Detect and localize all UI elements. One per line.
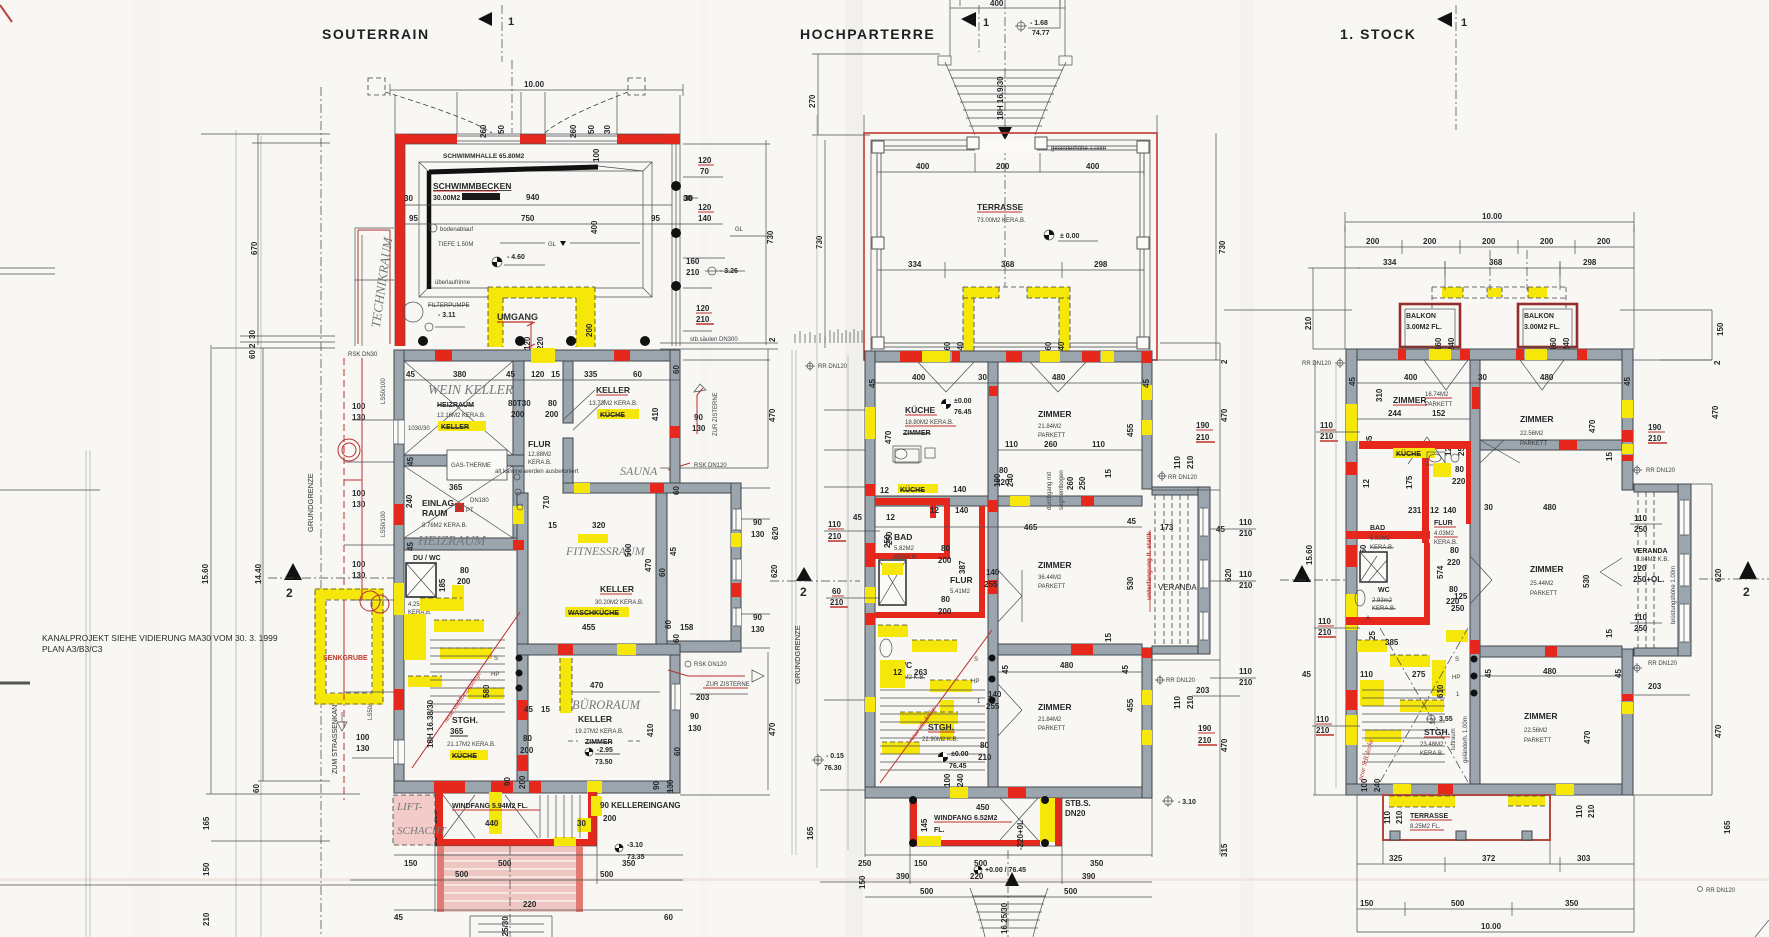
svg-text:220: 220 (523, 900, 537, 909)
svg-text:14.40: 14.40 (254, 563, 263, 584)
kueche old struck (898, 484, 938, 493)
dims 334/368/298 (877, 262, 1144, 278)
svg-text:210: 210 (1648, 434, 1662, 443)
svg-text:10.00: 10.00 (1482, 212, 1503, 221)
svg-text:210: 210 (1395, 810, 1404, 824)
svg-text:STGH.: STGH. (928, 722, 954, 732)
svg-text:PARKETT: PARKETT (1038, 433, 1066, 439)
svg-text:100: 100 (352, 560, 366, 569)
pool outer (419, 162, 652, 297)
filterpumpe (403, 302, 423, 322)
svg-text:RSK DN30: RSK DN30 (348, 352, 378, 358)
svg-text:60: 60 (633, 370, 642, 379)
svg-text:15: 15 (1605, 629, 1614, 638)
svg-text:45: 45 (406, 370, 415, 379)
dim 10.00 top (390, 84, 683, 96)
yellow patches walls (531, 348, 555, 363)
svg-text:WC: WC (1378, 587, 1390, 594)
svg-text:18H 16.38/30: 18H 16.38/30 (426, 699, 435, 748)
svg-text:KELLER: KELLER (578, 714, 612, 724)
level mark -1.68/74.77 (1017, 22, 1025, 30)
svg-text:geländerhöhe 1.00m: geländerhöhe 1.00m (1051, 146, 1106, 152)
svg-text:HOCHPARTERRE: HOCHPARTERRE (800, 26, 935, 42)
svg-text:240: 240 (1006, 473, 1015, 487)
einlag raum X (404, 466, 513, 538)
svg-text:12: 12 (1362, 479, 1371, 488)
bottom dims plan2 (820, 855, 1152, 897)
svg-text:2: 2 (800, 585, 807, 599)
svg-text:BALKON: BALKON (1524, 313, 1554, 320)
svg-text:RAUM: RAUM (422, 508, 448, 518)
svg-text:45: 45 (669, 547, 678, 556)
svg-text:710: 710 (542, 495, 551, 509)
svg-text:19.27M2 KERA.B.: 19.27M2 KERA.B. (575, 729, 624, 735)
right dim stack upper (683, 144, 770, 224)
bottom hall dots (418, 336, 428, 346)
svg-text:12: 12 (880, 486, 889, 495)
svg-text:ZUR ZISTERNE: ZUR ZISTERNE (706, 682, 750, 688)
svg-text:220: 220 (536, 336, 545, 350)
svg-text:30: 30 (577, 819, 586, 828)
weinkeller X diagonals (404, 361, 513, 455)
svg-text:8.25M2 FL.: 8.25M2 FL. (1410, 824, 1441, 830)
svg-text:372: 372 (1482, 854, 1496, 863)
svg-text:TIEFE 1.50M: TIEFE 1.50M (438, 242, 473, 248)
inner wall V1 weinkeller (513, 361, 524, 460)
svg-text:120: 120 (698, 203, 712, 212)
svg-text:8.84M2 K.B.: 8.84M2 K.B. (1636, 557, 1669, 563)
svg-text:80: 80 (941, 595, 950, 604)
door X veranda p3 (1600, 558, 1622, 586)
svg-text:GL: GL (548, 242, 557, 248)
level mark kueche (941, 399, 951, 409)
svg-text:368: 368 (1001, 260, 1015, 269)
svg-text:ZIMMER: ZIMMER (903, 430, 931, 437)
svg-text:76.45: 76.45 (949, 763, 967, 770)
svg-text:luftraum: luftraum (1451, 728, 1457, 750)
svg-text:- 3.10: - 3.10 (1178, 799, 1196, 806)
svg-text:30.00M2: 30.00M2 (433, 195, 460, 202)
lift schacht (393, 795, 435, 845)
door X zimmer top (1480, 440, 1520, 463)
svg-text:140: 140 (698, 214, 712, 223)
extension divider wall (656, 493, 667, 644)
svg-text:KÜCHE: KÜCHE (900, 485, 925, 494)
svg-text:500: 500 (1064, 887, 1078, 896)
svg-text:FLUR: FLUR (950, 575, 973, 585)
svg-text:100: 100 (352, 402, 366, 411)
svg-text:10.00: 10.00 (1481, 922, 1502, 931)
bottom wall patches (950, 787, 968, 798)
svg-text:PARKETT: PARKETT (1520, 441, 1548, 447)
svg-text:365: 365 (449, 483, 463, 492)
svg-text:210: 210 (1196, 433, 1210, 442)
svg-text:36.44M2: 36.44M2 (1038, 575, 1062, 581)
svg-text:210: 210 (686, 268, 700, 277)
dim 15.60 (206, 345, 360, 794)
plan3 extension lines (1345, 225, 1634, 349)
svg-text:RR DN120: RR DN120 (1302, 361, 1332, 367)
svg-text:13.73M2 KERA.B.: 13.73M2 KERA.B. (589, 401, 638, 407)
svg-text:250: 250 (1634, 525, 1648, 534)
svg-text:210: 210 (696, 315, 710, 324)
left margin long lines (236, 130, 261, 937)
extension top wall (563, 483, 741, 493)
svg-text:HEIZRAUM: HEIZRAUM (417, 533, 486, 548)
svg-text:200: 200 (603, 814, 617, 823)
svg-text:45: 45 (853, 513, 862, 522)
svg-text:PT: PT (466, 508, 474, 514)
stairs area DU/WC (406, 563, 436, 597)
svg-text:15: 15 (1104, 469, 1113, 478)
svg-text:500: 500 (1451, 899, 1465, 908)
svg-text:350: 350 (1090, 859, 1104, 868)
svg-text:PARKETT: PARKETT (1038, 584, 1066, 590)
svg-text:2: 2 (286, 586, 293, 600)
svg-text:2: 2 (768, 337, 777, 342)
H wall right top p3 (1480, 440, 1622, 450)
-4.60 (492, 257, 502, 267)
svg-text:620: 620 (771, 526, 780, 540)
svg-text:580: 580 (482, 684, 491, 698)
svg-text:100: 100 (352, 489, 366, 498)
svg-text:STB.S.: STB.S. (1065, 799, 1091, 808)
right wall patches (1142, 351, 1152, 363)
svg-text:KANALPROJEKT SIEHE VIDIERUNG: KANALPROJEKT SIEHE VIDIERUNG MA30 VOM 30… (42, 633, 278, 643)
svg-text:334: 334 (1383, 258, 1397, 267)
stair yellow patches (420, 598, 462, 611)
svg-text:ZIMMER: ZIMMER (1393, 395, 1427, 405)
svg-text:100: 100 (592, 148, 601, 162)
svg-text:200: 200 (938, 607, 952, 616)
svg-text:130: 130 (352, 500, 366, 509)
svg-text:PARKETT: PARKETT (1524, 738, 1552, 744)
svg-text:110: 110 (1383, 811, 1392, 824)
svg-text:750: 750 (521, 214, 535, 223)
svg-text:80: 80 (523, 734, 532, 743)
bottom wall patches p3 (1393, 784, 1411, 795)
svg-text:90: 90 (694, 413, 703, 422)
svg-text:200: 200 (938, 556, 952, 565)
svg-text:455: 455 (1126, 698, 1135, 712)
svg-text:200: 200 (1482, 237, 1496, 246)
svg-text:80: 80 (1455, 465, 1464, 474)
svg-text:470: 470 (768, 408, 777, 422)
svg-text:HEIZRAUM: HEIZRAUM (437, 402, 474, 409)
svg-text:RR DN120: RR DN120 (1648, 661, 1678, 667)
svg-text:165: 165 (202, 816, 211, 830)
svg-text:50: 50 (587, 125, 596, 134)
svg-text:210: 210 (1239, 581, 1253, 590)
svg-text:-2.95: -2.95 (597, 747, 613, 754)
svg-text:400: 400 (590, 220, 599, 234)
svg-text:KÜCHE: KÜCHE (600, 410, 625, 419)
svg-text:18.80M2 KERA.B.: 18.80M2 KERA.B. (905, 420, 954, 426)
svg-text:250: 250 (858, 859, 872, 868)
svg-text:FITNESSRAUM: FITNESSRAUM (565, 544, 646, 558)
svg-text:203: 203 (1648, 682, 1662, 691)
svg-text:620: 620 (1224, 568, 1233, 582)
svg-text:WINDFANG 5.94M2 FL.: WINDFANG 5.94M2 FL. (452, 803, 528, 810)
svg-text:200: 200 (518, 775, 527, 789)
svg-text:365: 365 (450, 727, 464, 736)
svg-text:200: 200 (545, 410, 559, 419)
svg-text:110: 110 (1092, 440, 1105, 449)
svg-text:PARKETT: PARKETT (1530, 591, 1558, 597)
svg-text:HP: HP (491, 672, 499, 678)
door swings top (918, 362, 1086, 392)
svg-text:130: 130 (688, 724, 702, 733)
bottom-left dims (0, 841, 470, 885)
svg-text:480: 480 (1060, 661, 1074, 670)
right wall column dots (671, 181, 681, 191)
senkgrube (315, 589, 383, 704)
svg-text:-3.10: -3.10 (627, 842, 643, 849)
svg-text:210: 210 (1186, 695, 1195, 709)
svg-text:RR DN120: RR DN120 (1646, 468, 1676, 474)
svg-text:2: 2 (1220, 359, 1229, 364)
svg-text:überlaufrinne: überlaufrinne (435, 280, 471, 286)
svg-text:PARKETT: PARKETT (1425, 402, 1453, 408)
shower bad (879, 560, 906, 605)
svg-text:325: 325 (1389, 854, 1403, 863)
umgang yellow (488, 287, 503, 347)
H wall kueche (875, 496, 988, 506)
svg-text:210: 210 (1198, 736, 1212, 745)
svg-text:470: 470 (768, 722, 777, 736)
svg-text:150: 150 (202, 862, 211, 876)
svg-text:260: 260 (1066, 476, 1075, 490)
svg-text:60: 60 (672, 634, 681, 643)
red stair diagonal (412, 612, 520, 768)
terrasse red outline (864, 133, 1157, 360)
svg-text:3.55: 3.55 (1439, 716, 1453, 723)
svg-text:95: 95 (651, 214, 660, 223)
svg-text:WEIN KELLER: WEIN KELLER (428, 382, 514, 397)
section marker 1 (961, 12, 976, 27)
svg-text:30: 30 (978, 373, 987, 382)
dims row under top wall (404, 379, 680, 381)
svg-text:150: 150 (404, 859, 418, 868)
wall top red (395, 134, 457, 144)
veranda p3 (1634, 484, 1684, 492)
svg-text:140: 140 (953, 485, 967, 494)
bottom dims p3 (1357, 857, 1634, 872)
windfang plan2 (910, 798, 917, 846)
svg-text:200: 200 (1540, 237, 1554, 246)
svg-text:120: 120 (696, 304, 710, 313)
svg-text:bodenablauf: bodenablauf (440, 227, 473, 233)
svg-text:30: 30 (1484, 503, 1493, 512)
property line red dashed (343, 358, 345, 800)
right margin lines (660, 343, 778, 349)
svg-text:15: 15 (541, 705, 550, 714)
old bay yellow (963, 290, 974, 361)
svg-text:130: 130 (352, 413, 366, 422)
svg-text:298: 298 (1583, 258, 1597, 267)
svg-text:ZIMMER: ZIMMER (1038, 409, 1072, 419)
level 0.00 (1044, 230, 1054, 240)
svg-text:HP: HP (1452, 675, 1460, 681)
svg-text:530: 530 (1582, 574, 1591, 588)
svg-text:- 0.15: - 0.15 (826, 753, 844, 760)
svg-text:30: 30 (248, 330, 257, 339)
inner wall H4 bueroraum top (517, 644, 680, 655)
svg-text:45: 45 (1216, 525, 1225, 534)
svg-text:140: 140 (955, 506, 969, 515)
building outer walls (865, 351, 1152, 362)
svg-text:315: 315 (1220, 843, 1229, 857)
svg-text:23.48M2: 23.48M2 (1420, 742, 1444, 748)
shower p3 (1360, 552, 1387, 582)
svg-text:70: 70 (700, 167, 709, 176)
svg-text:22.90M2 K.B.: 22.90M2 K.B. (922, 737, 959, 743)
svg-text:220: 220 (1452, 477, 1466, 486)
svg-text:DU / WC: DU / WC (413, 555, 441, 562)
terrasse railing (877, 146, 1144, 347)
svg-text:200: 200 (996, 162, 1010, 171)
svg-text:190: 190 (1198, 724, 1212, 733)
svg-text:270: 270 (808, 94, 817, 108)
veranda plan2 (1152, 487, 1209, 495)
svg-text:60: 60 (252, 784, 261, 793)
svg-text:150: 150 (858, 875, 867, 889)
svg-text:500: 500 (920, 887, 934, 896)
svg-text:45: 45 (394, 913, 403, 922)
svg-text:WINDFANG 6.52M2: WINDFANG 6.52M2 (934, 815, 998, 822)
svg-text:STGH.: STGH. (1424, 727, 1450, 737)
svg-text:durchgang mit: durchgang mit (1047, 472, 1053, 510)
svg-text:200: 200 (1366, 237, 1380, 246)
svg-text:298: 298 (1094, 260, 1108, 269)
svg-text:HP: HP (971, 679, 979, 685)
svg-text:210: 210 (1239, 678, 1253, 687)
svg-text:190: 190 (1648, 423, 1662, 432)
svg-text:455: 455 (1126, 423, 1135, 437)
svg-text:KELLER: KELLER (600, 584, 634, 594)
svg-text:200: 200 (1597, 237, 1611, 246)
svg-text:45: 45 (1142, 379, 1151, 388)
svg-text:125: 125 (1454, 592, 1468, 601)
svg-text:940: 940 (526, 193, 540, 202)
inner wall V1b einlag (513, 466, 524, 550)
mid vertical wall (988, 362, 998, 787)
svg-text:60: 60 (664, 913, 673, 922)
svg-text:620: 620 (1714, 568, 1723, 582)
svg-text:368: 368 (1489, 258, 1503, 267)
terrasse p3 bottom (1383, 795, 1550, 840)
H wall patches (875, 498, 950, 505)
svg-text:12: 12 (893, 668, 902, 677)
balkon right (1518, 304, 1577, 347)
svg-text:S: S (494, 656, 498, 662)
svg-text:DN20: DN20 (1065, 809, 1086, 818)
svg-text:470: 470 (644, 558, 653, 572)
inner wall V2 flur/keller (563, 361, 573, 423)
svg-text:geländerh. 1.00m: geländerh. 1.00m (1463, 716, 1469, 763)
svg-text:470: 470 (1220, 738, 1229, 752)
svg-text:30: 30 (1478, 373, 1487, 382)
svg-text:STGH.: STGH. (452, 715, 478, 725)
svg-text:670: 670 (250, 241, 259, 255)
svg-text:RSK DN120: RSK DN120 (694, 463, 727, 469)
svg-text:210: 210 (828, 532, 842, 541)
svg-text:SOUTERRAIN: SOUTERRAIN (322, 26, 430, 42)
svg-text:30: 30 (603, 125, 612, 134)
svg-text:110: 110 (1239, 518, 1252, 527)
mid wall patches p3 (1472, 387, 1480, 409)
extension window gaps (733, 509, 741, 530)
svg-text:15: 15 (1605, 452, 1614, 461)
svg-text:1. STOCK: 1. STOCK (1340, 26, 1416, 42)
svg-text:45: 45 (524, 705, 533, 714)
svg-text:200: 200 (1423, 237, 1437, 246)
section triangle 2 (284, 563, 302, 580)
svg-text:240: 240 (405, 494, 414, 508)
svg-text:2: 2 (248, 343, 257, 348)
svg-text:110: 110 (1239, 570, 1252, 579)
svg-text:± 0.00: ± 0.00 (1060, 233, 1080, 240)
svg-text:145: 145 (920, 818, 929, 832)
right lower wall window (672, 684, 680, 710)
svg-text:90 KELLEREINGANG: 90 KELLEREINGANG (600, 801, 680, 810)
svg-text:ZIMMER: ZIMMER (585, 739, 613, 746)
svg-text:140: 140 (1443, 506, 1457, 515)
svg-text:GL: GL (735, 227, 744, 233)
svg-text:ZIMMER: ZIMMER (1530, 564, 1564, 574)
svg-text:250+OL.: 250+OL. (1633, 575, 1664, 584)
outer wall top (394, 350, 680, 361)
svg-text:2.93m2: 2.93m2 (1372, 598, 1393, 604)
svg-text:90: 90 (503, 777, 512, 786)
svg-text:240: 240 (1373, 778, 1382, 792)
svg-text:100: 100 (993, 473, 1002, 487)
svg-text:400: 400 (990, 0, 1004, 8)
door diag keller (563, 390, 605, 430)
svg-text:RR DN120: RR DN120 (1168, 475, 1198, 481)
svg-text:- 3.26: - 3.26 (720, 268, 738, 275)
dim line 670 (201, 134, 330, 345)
svg-text:15.60: 15.60 (201, 563, 210, 584)
extension bottom wall (656, 641, 741, 652)
svg-text:150: 150 (1360, 899, 1374, 908)
svg-text:RR DN120: RR DN120 (1166, 678, 1196, 684)
svg-text:60: 60 (664, 620, 673, 629)
svg-text:244: 244 (1388, 409, 1402, 418)
svg-text:80: 80 (460, 566, 469, 575)
svg-text:PLAN A3/B3/C3: PLAN A3/B3/C3 (42, 644, 103, 654)
entry stair trumpet (938, 56, 951, 65)
svg-text:KÜCHE: KÜCHE (1396, 449, 1421, 458)
svg-text:21.84M2: 21.84M2 (1038, 717, 1062, 723)
left wall patches (865, 407, 875, 439)
svg-text:470: 470 (590, 681, 604, 690)
svg-text:210: 210 (1186, 455, 1195, 469)
svg-text:110: 110 (1318, 617, 1331, 626)
svg-text:SAUNA: SAUNA (620, 464, 658, 478)
svg-text:250: 250 (1634, 624, 1648, 633)
balkon left (1400, 304, 1460, 347)
svg-text:45: 45 (1127, 517, 1136, 526)
svg-text:210: 210 (978, 753, 992, 762)
big pink stair (437, 846, 583, 912)
svg-text:210: 210 (1587, 804, 1596, 818)
section triangle left p3 (1293, 565, 1311, 582)
svg-text:60: 60 (672, 486, 681, 495)
svg-text:440: 440 (485, 819, 499, 828)
extension right wall (731, 483, 741, 652)
svg-text:100: 100 (356, 733, 370, 742)
